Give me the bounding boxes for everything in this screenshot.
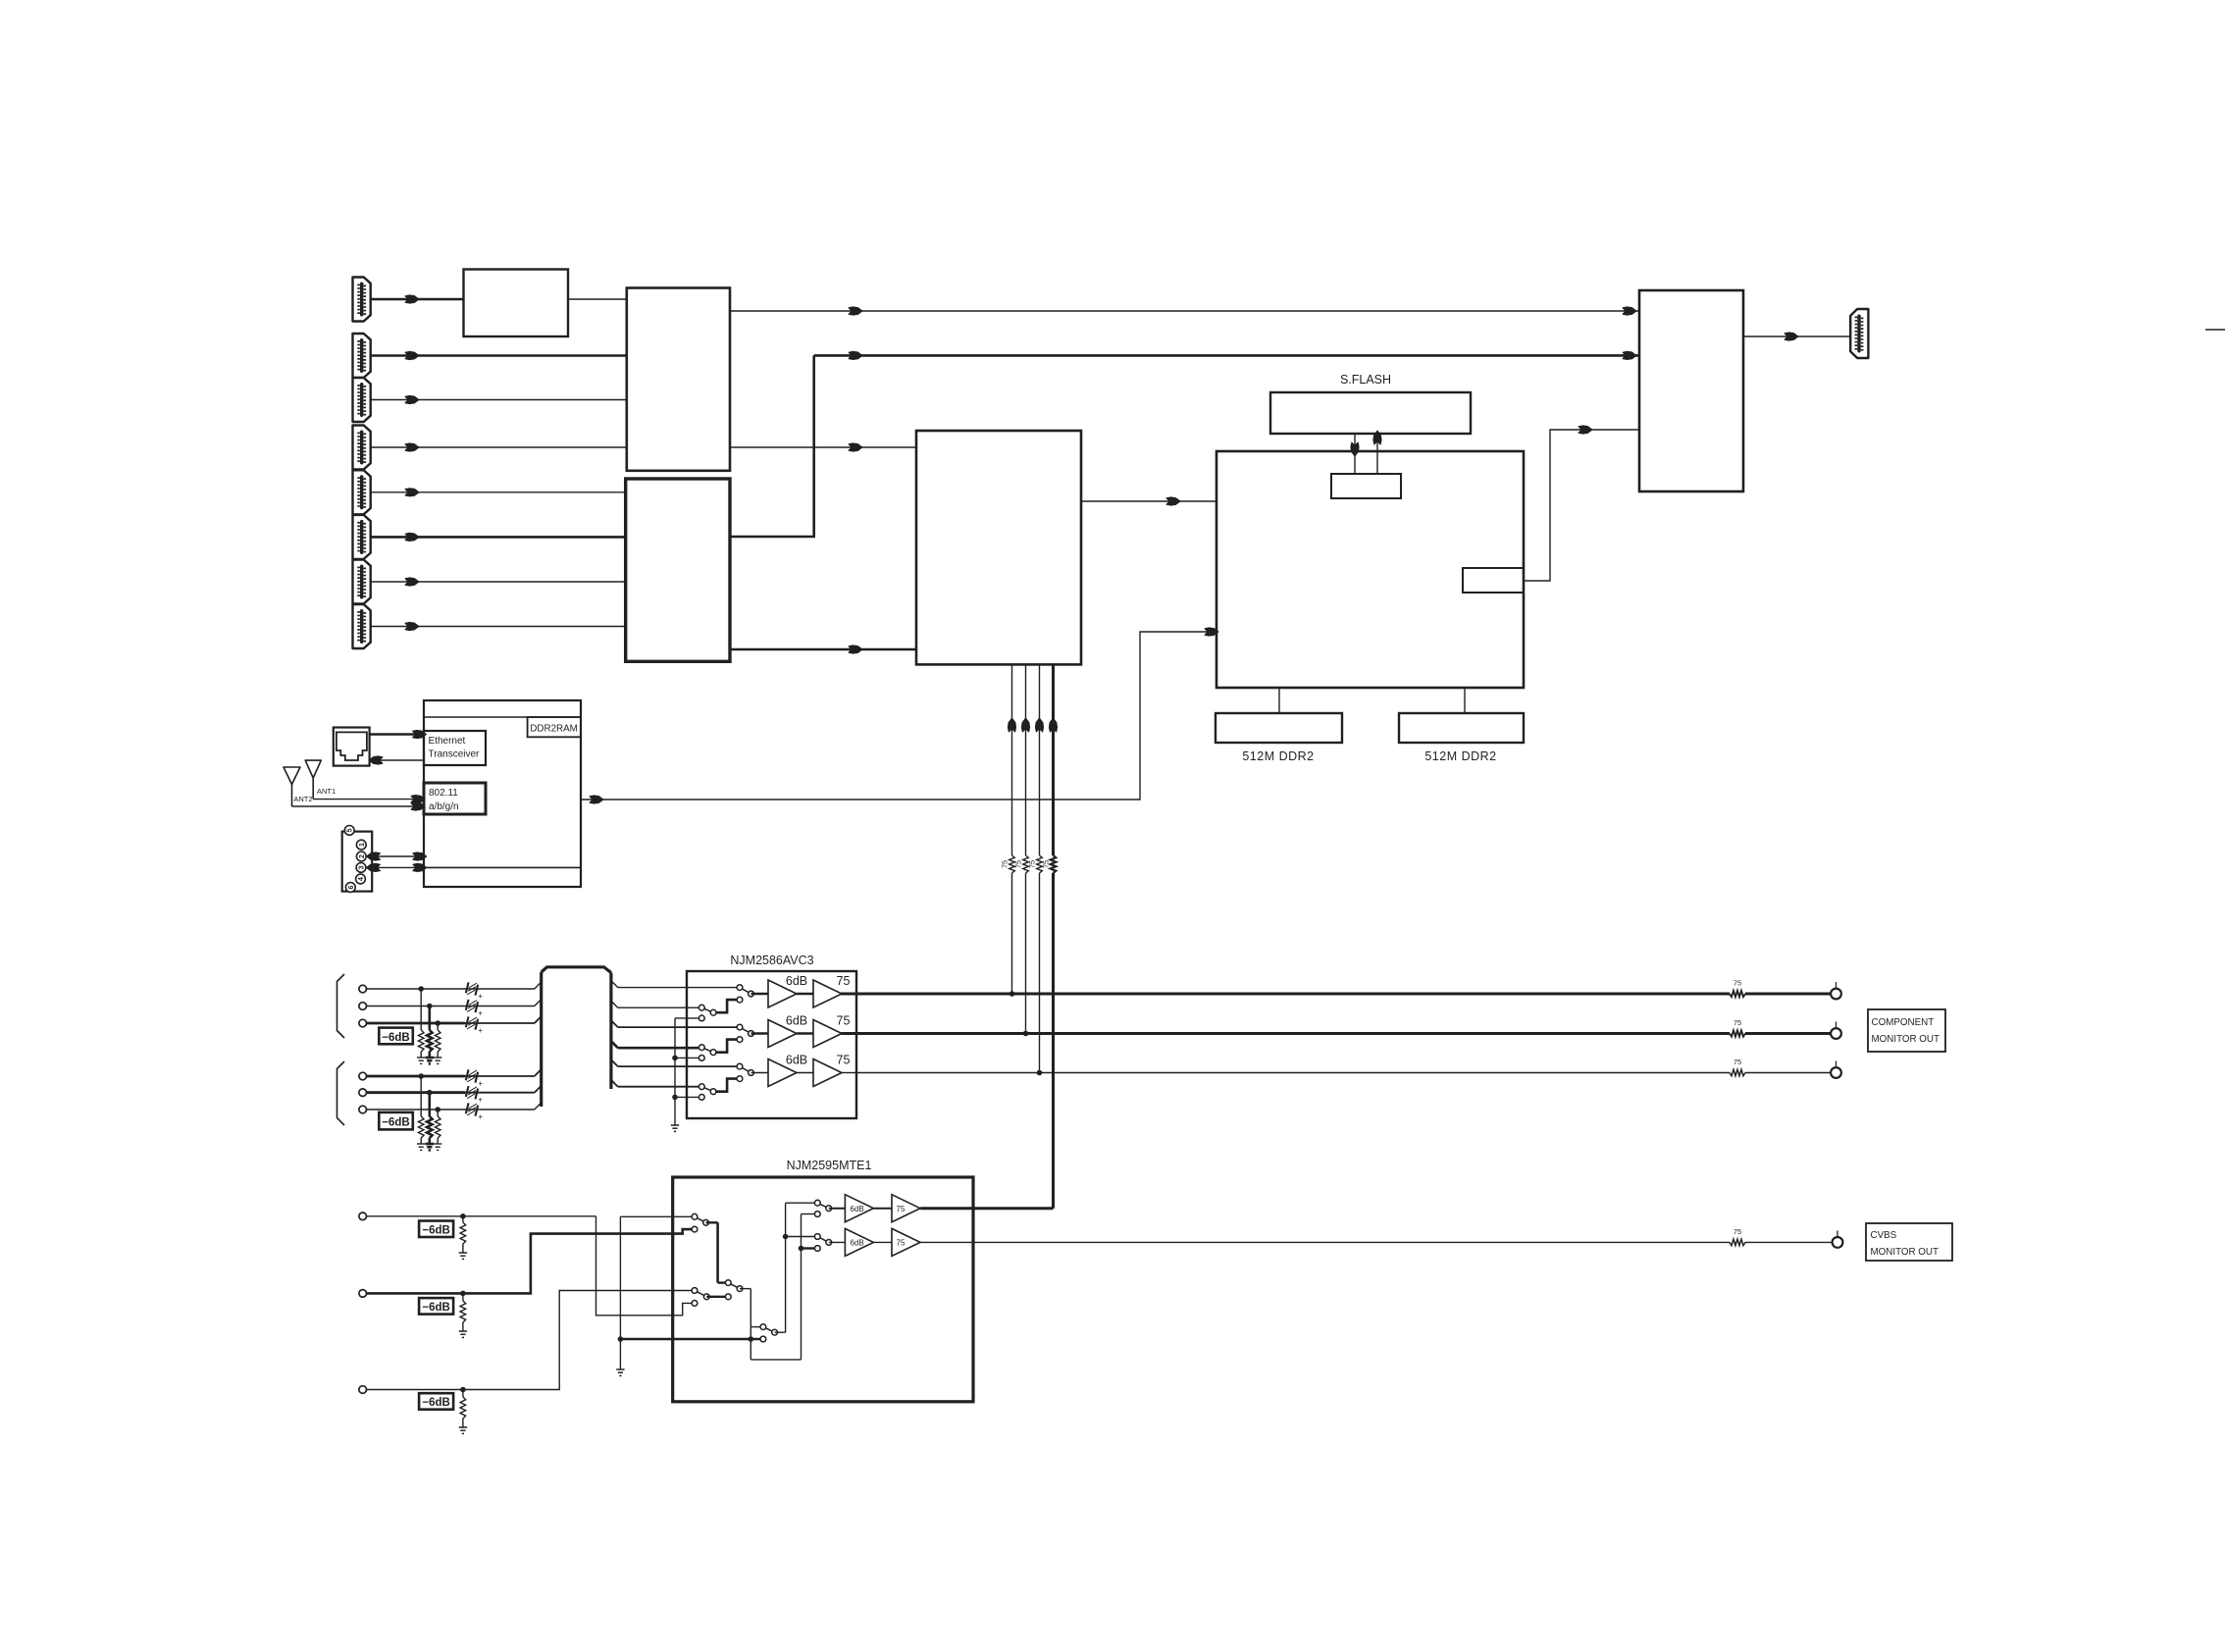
svg-text:75: 75 [1014, 860, 1023, 868]
svg-text:+: + [478, 1009, 483, 1018]
svg-text:COMPONENT: COMPONENT [1872, 1017, 1935, 1028]
svg-text:6dB: 6dB [851, 1205, 864, 1213]
svg-text:Ethernet: Ethernet [429, 736, 466, 747]
svg-text:CVBS: CVBS [1871, 1230, 1897, 1241]
svg-text:75: 75 [837, 1054, 851, 1067]
svg-text:3: 3 [359, 865, 366, 869]
svg-text:512M DDR2: 512M DDR2 [1424, 749, 1496, 763]
svg-text:75: 75 [1733, 979, 1741, 988]
svg-text:DDR2RAM: DDR2RAM [530, 724, 577, 735]
svg-text:Transceiver: Transceiver [429, 749, 481, 760]
svg-text:1: 1 [359, 843, 366, 847]
svg-text:6dB: 6dB [786, 1014, 807, 1028]
svg-text:6: 6 [348, 885, 355, 889]
svg-text:75: 75 [1733, 1058, 1741, 1066]
svg-text:75: 75 [897, 1205, 906, 1213]
svg-text:NJM2595MTE1: NJM2595MTE1 [787, 1159, 872, 1172]
svg-text:75: 75 [1042, 860, 1051, 868]
svg-text:75: 75 [1001, 860, 1009, 868]
svg-text:−6dB: −6dB [382, 1117, 409, 1129]
svg-text:S.FLASH: S.FLASH [1340, 373, 1391, 387]
svg-text:2: 2 [359, 854, 366, 858]
svg-text:+: + [478, 1079, 483, 1088]
svg-text:75: 75 [837, 1014, 851, 1028]
svg-text:512M DDR2: 512M DDR2 [1242, 749, 1314, 763]
svg-text:+: + [478, 1026, 483, 1035]
svg-text:ANT1: ANT1 [317, 787, 336, 796]
svg-text:75: 75 [837, 974, 851, 988]
svg-text:+: + [478, 992, 483, 1001]
svg-text:5: 5 [347, 828, 354, 832]
svg-text:6dB: 6dB [786, 974, 807, 988]
svg-text:75: 75 [897, 1239, 906, 1248]
svg-text:MONITOR OUT: MONITOR OUT [1871, 1247, 1939, 1258]
svg-text:75: 75 [1733, 1227, 1741, 1236]
svg-text:802.11: 802.11 [429, 788, 458, 799]
svg-text:−6dB: −6dB [382, 1032, 409, 1044]
svg-text:a/b/g/n: a/b/g/n [429, 801, 459, 812]
svg-text:4: 4 [358, 877, 365, 881]
svg-text:75: 75 [1733, 1018, 1741, 1027]
svg-text:−6dB: −6dB [422, 1397, 449, 1409]
svg-text:6dB: 6dB [786, 1054, 807, 1067]
svg-text:75: 75 [1028, 860, 1037, 868]
svg-text:6dB: 6dB [851, 1239, 864, 1248]
svg-text:+: + [478, 1112, 483, 1121]
svg-text:−6dB: −6dB [422, 1225, 449, 1237]
svg-text:−6dB: −6dB [422, 1302, 449, 1314]
svg-text:ANT2: ANT2 [293, 795, 312, 803]
svg-text:+: + [478, 1096, 483, 1105]
svg-text:MONITOR OUT: MONITOR OUT [1872, 1034, 1940, 1045]
svg-text:NJM2586AVC3: NJM2586AVC3 [730, 954, 813, 967]
